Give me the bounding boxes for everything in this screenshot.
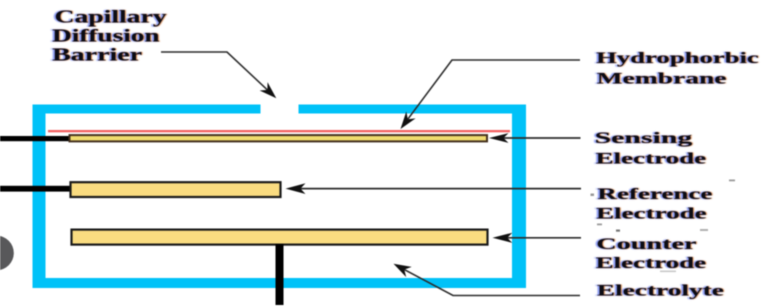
counter electrode — [72, 230, 488, 245]
svg-text:Barrier: Barrier — [52, 46, 142, 65]
svg-text:Counter: Counter — [596, 234, 696, 252]
speck above Counter — [616, 230, 620, 232]
leader line: capillary diffusion barrier — [161, 52, 276, 98]
counter electrode wire (vertical) — [276, 244, 284, 305]
sensor housing top wall left segment — [33, 105, 261, 114]
label: Capillary Diffusion Barrier — [52, 7, 167, 65]
sensor housing right wall — [512, 105, 526, 289]
sensor housing left wall — [33, 105, 46, 289]
svg-text:Electrode: Electrode — [596, 253, 707, 271]
speck above Counter (right) — [700, 229, 708, 231]
reference electrode wire — [0, 186, 72, 192]
sensing electrode wire — [0, 136, 70, 141]
label: Reference Electrode — [596, 184, 713, 222]
svg-text:Electrode: Electrode — [596, 204, 707, 222]
speck below Reference Electrode — [597, 224, 602, 226]
label: Counter Electrode — [596, 234, 707, 271]
svg-text:Capillary: Capillary — [55, 7, 168, 27]
svg-text:Reference: Reference — [597, 184, 712, 202]
sensor housing bottom wall — [33, 278, 527, 288]
svg-text:Diffusion: Diffusion — [52, 26, 160, 45]
leader line: sensing electrode — [489, 133, 581, 143]
leader line: counter electrode — [493, 233, 582, 243]
label: Sensing Electrode — [595, 129, 707, 167]
sensor housing top wall right segment (after capillary gap) — [299, 105, 527, 114]
gray circle (UI overlay at left edge) — [0, 236, 14, 271]
leader line: reference electrode — [286, 183, 582, 194]
svg-text:Hydrophorbic: Hydrophorbic — [596, 48, 759, 66]
svg-text:Sensing: Sensing — [595, 129, 693, 147]
hydrophobic membrane (red line) — [48, 130, 510, 132]
reference electrode — [71, 182, 281, 197]
sensing electrode — [70, 135, 488, 141]
svg-text:Membrane: Membrane — [597, 69, 727, 87]
speck near Reference label — [591, 194, 595, 197]
svg-text:Electrode: Electrode — [596, 149, 707, 167]
leader line: hydrophobic membrane — [401, 60, 581, 129]
svg-text:Electrolyte: Electrolyte — [597, 281, 724, 299]
label: Hydrophorbic Membrane — [596, 48, 759, 87]
leader line: electrolyte — [394, 264, 581, 296]
speck above Reference (right) — [729, 180, 735, 182]
speck above Electrolyte — [660, 271, 676, 273]
label: Electrolyte — [597, 281, 724, 299]
